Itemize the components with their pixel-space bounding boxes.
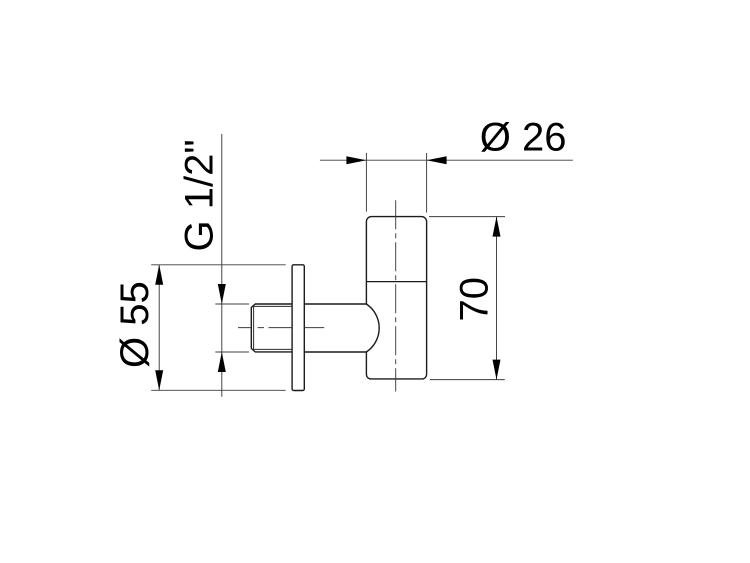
dimension G 1/2 extension line top <box>215 303 249 305</box>
vertical centerline <box>395 200 397 391</box>
dimension Ø26 arrow right <box>427 156 447 164</box>
dimension Ø55 arrow top <box>155 265 163 285</box>
dimension Ø55 label <box>113 281 157 368</box>
dimension 70 extension line top <box>429 216 505 218</box>
pipe rounded end arc inside cylinder <box>366 304 379 352</box>
cylinder joint line <box>366 281 426 283</box>
nipple thread root line top <box>254 305 293 307</box>
dimension 70 arrow bottom <box>493 360 501 380</box>
dimension G 1/2 label <box>177 139 221 251</box>
dimension Ø55 extension line top <box>151 264 286 266</box>
dimension Ø26 extension line right <box>426 153 428 213</box>
dimension Ø55 extension line bottom <box>151 389 286 391</box>
dimension Ø55 dimension line <box>158 265 160 391</box>
threaded nipple outer profile with chamfer <box>251 304 292 352</box>
dimension Ø26 dimension line <box>320 159 573 161</box>
dimension 70 dimension line <box>496 217 498 380</box>
dimension Ø26 arrow left <box>346 156 366 164</box>
vertical cylinder body outline <box>366 217 426 379</box>
dimension 70 arrow top <box>493 217 501 237</box>
svg-text:Ø 55: Ø 55 <box>113 281 157 368</box>
dimension 70 label <box>453 277 497 322</box>
nipple thread root line bottom <box>254 348 293 350</box>
dimension Ø26 extension line left <box>365 153 367 212</box>
svg-text:70: 70 <box>453 277 497 322</box>
svg-text:Ø 26: Ø 26 <box>480 116 567 160</box>
nipple thread root edge left <box>253 306 255 349</box>
wall flange plate <box>292 265 304 391</box>
horizontal pipe bottom line <box>304 351 366 353</box>
dimension Ø55 arrow bottom <box>155 370 163 390</box>
dimension G 1/2 arrow bottom <box>218 352 226 372</box>
dimension G 1/2 arrow top <box>218 284 226 304</box>
dimension G 1/2 dimension line <box>221 134 223 397</box>
horizontal centerline <box>238 327 324 329</box>
dimension G 1/2 extension line bottom <box>215 351 249 353</box>
dimension Ø26 label <box>480 116 567 160</box>
dimension 70 extension line bottom <box>430 379 505 381</box>
horizontal pipe top line <box>304 303 366 305</box>
svg-text:G 1/2": G 1/2" <box>177 139 221 251</box>
